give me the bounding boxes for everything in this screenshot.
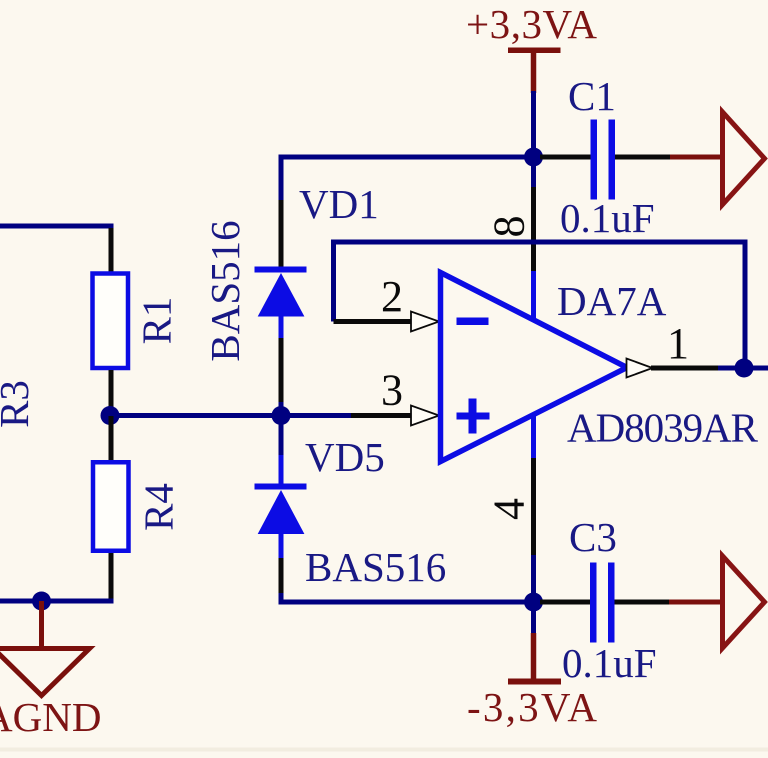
svg-text:R1: R1 [134, 297, 180, 345]
svg-text:-3,3VA: -3,3VA [467, 684, 597, 730]
svg-text:0.1uF: 0.1uF [562, 640, 657, 686]
wire: C1 left lead [540, 155, 592, 160]
wire: op-amp pin 3 lead [351, 413, 412, 418]
svg-text:1: 1 [667, 319, 689, 368]
wire: VD5 anode pin [279, 558, 284, 595]
wire: power stub to top node [531, 91, 536, 157]
pin 3 input arrow [411, 406, 439, 426]
wire: VD1 anode pin [279, 338, 284, 404]
wire: output lead [651, 366, 720, 371]
wire: pin 8 supply (navy part) [531, 157, 536, 189]
svg-text:VD1: VD1 [299, 181, 379, 227]
wire: VD1 to node A [279, 402, 284, 416]
power bar -3,3VA [508, 679, 561, 685]
wire: VD5 cathode stub [279, 455, 284, 484]
svg-text:+3,3VA: +3,3VA [466, 1, 597, 47]
wire: bottom left rail to AGND [0, 599, 114, 604]
wire: pin 8 supply (pin part) [531, 187, 536, 273]
wire: C3 left lead [540, 600, 592, 605]
svg-text:C3: C3 [569, 514, 617, 560]
diode VD5 body [258, 490, 305, 534]
wire: R4 top pin [109, 416, 114, 461]
wire: VD5 corner to bottom rail [281, 593, 534, 602]
svg-text:BAS516: BAS516 [202, 220, 248, 361]
op-amp output arrow pin 1 [627, 359, 653, 378]
wire: R1 top pin [109, 228, 114, 272]
wire: pin 8 stub into op-amp [531, 271, 536, 320]
svg-text:3: 3 [381, 366, 403, 415]
wire: pin 4 pin part [531, 458, 536, 557]
wire: VD1 anode stub [279, 316, 284, 341]
wire: output to right edge [718, 366, 768, 371]
wire: C3 right lead [615, 600, 672, 605]
junction: bottom node [524, 593, 543, 612]
wire: pin 4 navy part [531, 555, 536, 602]
resistor R1 [93, 274, 129, 369]
off-sheet connector (bottom) [723, 556, 765, 648]
junction: node A (R1/R4) [101, 406, 120, 425]
wire: feedback loop [334, 242, 746, 368]
power stub +3,3VA [531, 52, 537, 93]
wire: C1 to connector [670, 155, 721, 160]
diode VD1 cathode bar [255, 267, 307, 273]
junction: output node [735, 359, 754, 378]
wire: pin 4 stub from op-amp [531, 414, 536, 460]
wire: main node horizontal [110, 413, 353, 418]
wire: bottom node to -3.3V stub [531, 602, 536, 635]
wire: op-amp pin 2 lead [334, 319, 413, 324]
svg-text:0.1uF: 0.1uF [560, 195, 655, 241]
wire: R1 bottom pin [109, 370, 114, 416]
capacitor C1 [591, 120, 598, 200]
off-sheet connector (top) [723, 112, 765, 205]
svg-text:AGND: AGND [0, 694, 101, 740]
wire: node B to VD5 [279, 415, 284, 457]
wire: C1 right lead [615, 155, 672, 160]
svg-text:VD5: VD5 [305, 434, 385, 480]
scan artifact band at bottom [0, 748, 768, 752]
svg-text:DA7A: DA7A [557, 278, 667, 324]
op-amp DA7A body [441, 273, 628, 462]
diode VD5 cathode bar [255, 484, 307, 490]
svg-text:R3: R3 [0, 380, 37, 428]
pin 2 input arrow [411, 312, 439, 332]
svg-text:R4: R4 [136, 483, 182, 531]
junction: top node [524, 148, 543, 167]
junction: AGND node [32, 592, 51, 611]
svg-text:2: 2 [381, 272, 403, 321]
diode VD1 body [258, 273, 305, 317]
power stub -3,3VA [531, 633, 537, 679]
svg-text:4: 4 [485, 498, 534, 520]
wire: C3 to connector [669, 600, 721, 605]
wire: VD5 anode stub [279, 534, 284, 561]
power bar +3,3VA [508, 48, 561, 54]
ground AGND symbol [0, 649, 90, 696]
wire: left rail to R1 (horizontal from R3 off-sheet) [0, 226, 111, 231]
wire: R4 bottom pin [109, 553, 114, 601]
op-amp minus sign [457, 318, 489, 326]
capacitor C3 [590, 563, 597, 643]
resistor R4 [93, 462, 129, 551]
svg-text:AD8039AR: AD8039AR [567, 405, 759, 451]
wire: VD1 cathode pin [279, 200, 284, 268]
svg-text:C1: C1 [568, 73, 616, 119]
op-amp plus sign [457, 413, 490, 420]
junction: node B (VD column) [272, 406, 291, 425]
wire: AGND stub [39, 601, 44, 648]
svg-text:BAS516: BAS516 [305, 544, 446, 590]
wire: top rail (node to VD1 corner) [281, 157, 534, 202]
svg-text:8: 8 [485, 216, 534, 238]
